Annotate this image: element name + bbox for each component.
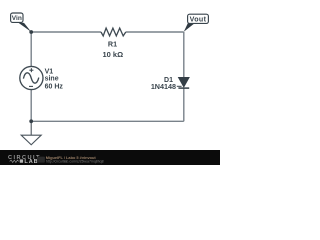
wire right vertical upper: [183, 32, 185, 77]
wire left vertical upper: [30, 32, 32, 67]
voltage source V1: [20, 66, 43, 89]
footer bar: [0, 150, 220, 165]
flag Vout pointer: [184, 23, 195, 32]
svg-text:http://circuitlab.com/c/z5kea7: http://circuitlab.com/c/z5kea7mq8hq8: [46, 160, 104, 164]
flag Vout box: [188, 14, 209, 23]
svg-text:R1: R1: [108, 40, 117, 49]
junction node Vin: [29, 30, 33, 34]
flag Vin pointer: [18, 23, 31, 32]
svg-text:Vout: Vout: [190, 15, 207, 23]
footer badge: [37, 157, 45, 163]
resistor R1: [101, 28, 126, 36]
wire resistor-to-right-corner: [126, 31, 184, 33]
diode D1: [178, 77, 189, 88]
wire left vertical lower: [30, 89, 32, 121]
wire top left-to-resistor: [31, 31, 101, 33]
svg-text:LAB: LAB: [24, 159, 38, 165]
ground: [21, 121, 41, 145]
minus sign: [29, 85, 33, 87]
svg-text:V1: V1: [45, 68, 54, 75]
flag Vin box: [11, 13, 23, 22]
logo zigzag: [10, 160, 19, 162]
svg-text:10 kΩ: 10 kΩ: [102, 50, 123, 59]
svg-text:60 Hz: 60 Hz: [45, 83, 64, 90]
label leader dash: [177, 85, 182, 87]
wire bottom: [31, 120, 184, 122]
svg-text:1N4148: 1N4148: [151, 82, 176, 91]
wire right vertical lower: [183, 88, 185, 121]
logo orange box: [20, 159, 23, 162]
junction node bottom-left: [29, 119, 33, 123]
svg-text:Vin: Vin: [12, 15, 22, 22]
svg-text:sine: sine: [45, 76, 59, 83]
plus sign: [29, 68, 33, 72]
